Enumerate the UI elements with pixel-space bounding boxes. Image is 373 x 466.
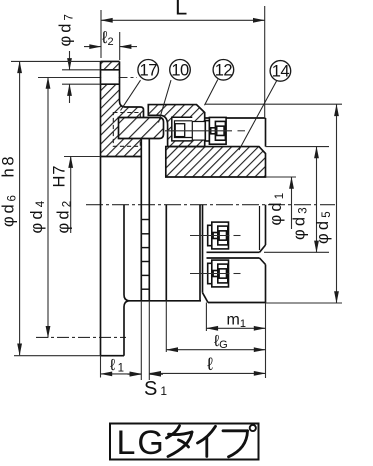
svg-text:14: 14 [272,63,290,81]
balloon 14 leader [239,81,277,151]
dimension S1 [128,373,142,375]
svg-text:φd6 h8: φd6 h8 [0,154,19,227]
balloon 12 leader [205,80,218,106]
centerline bolt-circle bottom [36,336,126,338]
svg-text:10: 10 [171,62,189,80]
hub left face below centerline [165,205,167,301]
dimension d7 [62,69,101,71]
flange body section (hatched) [101,61,144,156]
boss chamfer step bottom left [203,293,209,303]
screw 12 shank [192,122,205,141]
flange outline [120,61,144,117]
bolt 17 head (hatched) [119,118,164,139]
set screw A [208,222,229,249]
bolt recess hidden outline (dashed) [113,113,140,147]
sleeve section (hatched) [148,105,204,147]
set screw A axis [190,235,230,237]
hub plate lines below centerline [199,205,201,301]
LG type label box [110,424,259,460]
dimension d6 [11,60,101,62]
gear teeth strip outline [140,139,142,301]
dimension d2 [64,156,101,158]
dimension d4 [47,77,49,338]
set screw B [208,260,229,287]
dimension d1 [266,176,297,178]
centerline bolt-circle top (d7 hole axis) [38,77,101,79]
screw 12 tapped cup in sleeve plate [172,117,193,141]
boss bottom edge [208,302,266,304]
flange right face below centerline with hub fillets [124,205,130,356]
screw 12 head [205,117,226,144]
dimension l2 [119,32,121,60]
dimension l1 [100,356,102,378]
svg-text:ℓ: ℓ [207,354,213,374]
centerline main axis [86,204,335,206]
balloon 14 [270,61,291,82]
boss 2 outline [207,257,260,259]
dimension L [100,10,102,58]
katakana ta-i-pu drawn as paths [167,425,256,457]
dimension m1 [205,303,207,332]
flange hub bottom edge [130,300,201,302]
dimension lG [165,301,167,352]
balloon 17 [138,60,159,81]
svg-text:L: L [175,0,187,20]
svg-text:17: 17 [140,62,158,80]
svg-text:12: 12 [215,62,233,80]
balloon 10 leader [159,80,172,122]
screw 12 axis [165,130,232,132]
svg-text:H7: H7 [51,165,69,188]
dimension d3 [266,146,330,148]
svg-text:LG: LG [117,424,166,462]
hub boss top edge [205,117,266,119]
d7 hole in flange rim [101,70,119,83]
dimension d5 [205,103,342,105]
bore d2 top edge [101,156,142,158]
balloon 17 leader [121,80,141,110]
gear teeth tick lines [141,219,149,221]
boss 1 outline [265,205,267,245]
balloon 12 [213,60,234,81]
hub flange band section (hatched) [166,147,266,177]
set screw B axis [190,273,230,275]
dimension l [148,301,150,380]
balloon 10 [170,60,191,81]
hub end chamfer line [259,206,261,250]
